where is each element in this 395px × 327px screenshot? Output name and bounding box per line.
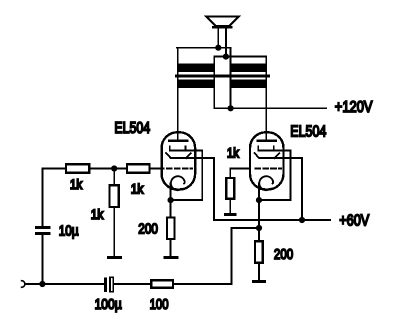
V1 beam plate tick <box>184 147 186 151</box>
resistor R2 1k <box>127 164 150 173</box>
wire R4 to ground <box>170 240 172 256</box>
svg-text:10µ: 10µ <box>59 224 79 240</box>
wire +120V rail <box>231 107 326 109</box>
tube V2 EL504 envelope <box>250 132 284 189</box>
node speaker left junction <box>215 45 221 51</box>
wire R7 to ground <box>229 200 231 213</box>
V1 anode plate <box>169 139 187 142</box>
transformer TR1 primary left winding bar <box>177 80 214 88</box>
svg-text:1k: 1k <box>91 207 104 222</box>
svg-text:100µ: 100µ <box>95 297 123 313</box>
svg-text:200: 200 <box>138 222 158 238</box>
node center tap junction <box>228 105 234 111</box>
node grid junction <box>111 165 117 171</box>
wire V1 screen to +60V rail <box>213 158 215 220</box>
wire bottom bus input to C2 <box>42 283 104 285</box>
wire R3 to ground <box>113 208 115 256</box>
wire V1 beam plates to cathode <box>171 151 203 201</box>
transformer TR1 secondary top terminal wire <box>177 47 231 49</box>
capacitor C1 10µ top plate <box>35 226 51 229</box>
transformer TR1 secondary left winding bar <box>177 63 214 72</box>
V1 control grid g1 dashed <box>167 168 192 170</box>
wire V2 cathode lead <box>258 184 260 201</box>
wire V2 cathode down to R5 <box>258 200 260 240</box>
V2 screen grid right tick <box>275 153 280 158</box>
wire input to junction <box>25 283 42 285</box>
node input junction <box>39 281 45 287</box>
capacitor C2 100µ plus plate <box>104 277 107 292</box>
resistor R4 200 <box>167 217 175 239</box>
capacitor C2 100µ minus plate <box>110 277 113 292</box>
svg-text:EL504: EL504 <box>114 120 150 137</box>
transformer TR1 secondary lower terminal wire <box>214 56 266 58</box>
svg-text:+120V: +120V <box>335 99 373 116</box>
V1 beam plate bracket <box>170 147 202 151</box>
resistor R5 200 <box>255 241 263 263</box>
V2 control grid g1 dashed <box>255 168 281 170</box>
wire R2 to V1 grid <box>151 168 164 170</box>
V2 beam plate tick <box>273 147 275 151</box>
wire R6 to drive junction <box>174 228 259 284</box>
speaker LS1 magnet bar <box>212 26 233 29</box>
ground R7 <box>224 213 237 216</box>
wire V1 cathode lead <box>170 184 172 201</box>
ground R3 <box>107 256 122 259</box>
node drive junction <box>256 225 262 231</box>
V1 screen grid right tick <box>186 153 191 158</box>
svg-text:EL504: EL504 <box>290 124 326 141</box>
node V1 cathode junction <box>168 197 174 203</box>
node V2 cathode junction <box>256 197 262 203</box>
node V2 screen rail junction <box>299 217 305 223</box>
wire center-tap left branch <box>214 57 230 109</box>
V2 cathode <box>259 176 272 190</box>
wire R1 to junction <box>90 168 125 170</box>
V2 beam plate bracket <box>258 147 290 151</box>
ground R5 <box>252 280 266 283</box>
svg-text:1k: 1k <box>227 145 239 160</box>
V1 cathode <box>171 176 184 190</box>
capacitor C1 10µ bottom plate <box>35 232 51 235</box>
resistor R3 1k <box>110 185 119 207</box>
wire left vertical upper <box>41 169 43 227</box>
tube V1 EL504 envelope <box>162 132 196 189</box>
V1 screen grid g2 <box>166 153 214 158</box>
svg-text:200: 200 <box>274 247 293 263</box>
wire junction to R3 <box>113 169 115 185</box>
node speaker right junction <box>223 54 229 60</box>
wire speaker left lead <box>217 28 219 47</box>
wire right anode lead <box>265 57 267 141</box>
wire V2 grid to R7 <box>230 169 249 177</box>
wire center-tap right branch <box>230 48 232 109</box>
transformer TR1 primary right winding bar <box>231 80 267 88</box>
wire grid bus left <box>42 168 64 170</box>
wire speaker right lead <box>225 28 227 56</box>
resistor R6 100 <box>151 280 173 288</box>
V2 screen grid g2 <box>255 153 303 158</box>
wire R5 to ground <box>258 264 260 280</box>
svg-text:1k: 1k <box>131 182 144 197</box>
transformer TR1 core <box>175 74 270 77</box>
V2 anode plate <box>258 139 276 142</box>
wire V1 cathode to R4 <box>170 200 172 216</box>
wire left anode lead <box>177 48 179 141</box>
wire left vertical lower <box>41 235 43 284</box>
input jack J1 <box>22 281 25 288</box>
svg-text:100: 100 <box>150 297 169 313</box>
resistor R1 1k <box>66 164 89 173</box>
wire V2 screen to +60V rail <box>301 158 303 220</box>
resistor R7 1k <box>226 178 234 199</box>
wire V2 beam plates to cathode <box>259 151 291 201</box>
wire C2 to R6 <box>114 283 151 285</box>
speaker LS1 cone <box>206 16 239 26</box>
ground R4 <box>164 256 179 259</box>
svg-text:+60V: +60V <box>339 213 369 230</box>
transformer TR1 secondary right winding bar <box>231 63 267 72</box>
wire +60V rail <box>214 219 330 221</box>
svg-text:1k: 1k <box>70 177 83 192</box>
